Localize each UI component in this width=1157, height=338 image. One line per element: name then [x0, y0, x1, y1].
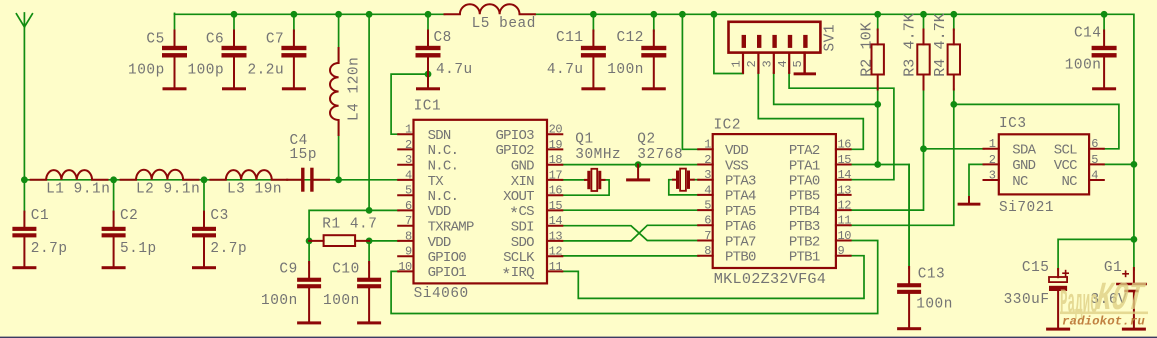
svg-text:C9: C9	[279, 261, 297, 277]
junction rail/C12	[650, 11, 657, 18]
wire SDI net IC1 pin14 crossing to IC2 pin7 PTA7	[562, 226, 699, 241]
svg-text:SDI: SDI	[511, 220, 534, 236]
svg-text:R2 10K: R2 10K	[858, 22, 875, 77]
wire SCLK net IC1 pin12 to IC2 pin8 PTB0	[562, 255, 699, 257]
svg-text:SCLK: SCLK	[503, 250, 535, 266]
resistor R2 10K	[872, 30, 884, 90]
capacitor C6 with ground	[222, 31, 247, 91]
antenna A1 fork	[16, 13, 32, 27]
svg-text:16: 16	[838, 138, 852, 152]
svg-text:GND: GND	[1012, 158, 1035, 174]
wire GPIO1 net IC1 pin10 to IC2 pin10 PTB2	[391, 241, 878, 314]
svg-text:14: 14	[838, 168, 852, 182]
junction RESET/IC2 pin15/C13	[874, 161, 881, 168]
resistor R3 4.7K	[917, 30, 929, 90]
junction rail/R4	[950, 11, 957, 18]
svg-text:12: 12	[838, 199, 852, 213]
junction R2/SV1 pin3	[874, 101, 881, 108]
svg-text:PTA5: PTA5	[725, 204, 756, 220]
svg-text:2: 2	[989, 153, 996, 167]
svg-text:4: 4	[704, 183, 711, 197]
svg-text:SV1: SV1	[823, 24, 839, 52]
svg-text:2: 2	[745, 61, 759, 68]
wire GND net IC1 pin18 to IC2 pin2 VSS	[562, 164, 699, 166]
svg-text:PTA2: PTA2	[789, 143, 820, 159]
wire R4 top lead from rail	[953, 14, 955, 30]
svg-text:8: 8	[704, 244, 711, 258]
wire C14 top drop	[1103, 14, 1105, 31]
ground on GND net	[626, 165, 650, 182]
wire RF line L1-L2-L3-C4 to IC1 pin4 TX	[24, 179, 398, 181]
svg-text:1: 1	[989, 137, 996, 151]
svg-text:2.7p: 2.7p	[210, 241, 247, 257]
op-amp IC3 Si7021 box and pins	[984, 134, 1104, 194]
capacitor C1 with ground	[12, 212, 36, 270]
svg-text:8: 8	[405, 229, 412, 243]
wire C5 top lead drop	[174, 13, 176, 31]
bottom window border	[0, 337, 1157, 338]
junction rail/C7	[291, 11, 298, 18]
svg-text:3: 3	[405, 153, 412, 167]
svg-text:330uF: 330uF	[1004, 292, 1050, 308]
wire C3 top lead	[203, 180, 205, 212]
svg-text:Si7021: Si7021	[999, 200, 1054, 216]
svg-text:3: 3	[760, 61, 774, 68]
svg-text:NC: NC	[1012, 174, 1028, 190]
svg-text:N.C.: N.C.	[428, 143, 459, 159]
capacitor C8 with ground	[416, 31, 441, 91]
capacitor C11 with ground	[581, 31, 606, 91]
wire SDA branch to IC3 pin1	[924, 148, 985, 150]
svg-text:C2: C2	[120, 208, 138, 224]
wire Q2 left loop to IC2 pin4 PTA4	[669, 180, 699, 195]
svg-text:5: 5	[1091, 153, 1098, 167]
svg-text:9: 9	[838, 244, 845, 258]
svg-text:100n: 100n	[1065, 57, 1102, 73]
svg-text:2.7p: 2.7p	[31, 241, 68, 257]
junction R1 in/C9	[306, 238, 313, 245]
svg-text:1: 1	[704, 138, 711, 152]
wire RESET net R2 bottom to SV1 pin3	[774, 73, 878, 105]
svg-text:100p: 100p	[187, 63, 224, 79]
battery G1 with ground	[1117, 268, 1146, 331]
svg-text:5: 5	[704, 199, 711, 213]
wire VDD top rail left of L5	[175, 13, 445, 15]
svg-text:PTB2: PTB2	[789, 234, 820, 250]
svg-text:R1 4.7: R1 4.7	[322, 217, 377, 233]
svg-text:9: 9	[405, 245, 412, 259]
wire CS net IC1 pin15 to IC2 pin5 PTA5	[562, 209, 699, 211]
svg-text:10: 10	[398, 260, 412, 274]
wire VDD top rail right of L5 with right-side drop to battery node	[535, 14, 1134, 270]
junction RF C4/L4	[335, 176, 342, 183]
svg-text:SDN: SDN	[428, 128, 451, 144]
capacitor C13 with ground	[897, 267, 921, 330]
wire VCC to IC3 pin5	[1103, 163, 1134, 165]
svg-text:R3 4.7K: R3 4.7K	[901, 13, 918, 77]
svg-text:7: 7	[704, 229, 711, 243]
svg-text:radiokot.ru: radiokot.ru	[1062, 315, 1145, 329]
wire IRQ net IC1 pin11 to IC2 pin9 PTB1	[562, 256, 864, 299]
svg-text:R4 4.7K: R4 4.7K	[932, 13, 949, 77]
svg-text:5.1p: 5.1p	[120, 241, 157, 257]
wire C7 top lead drop	[293, 14, 295, 31]
wire VDD over to R1 input	[309, 210, 369, 241]
svg-text:4: 4	[1091, 168, 1098, 182]
wire L4 top drop from rail	[338, 14, 340, 63]
crystal Q1 30MHz	[585, 169, 605, 191]
junction RF antenna/C1	[21, 176, 28, 183]
wire Q2 right lead to IC2 pin3 PTA3	[694, 179, 699, 181]
inductor L4	[330, 48, 339, 135]
svg-text:G1: G1	[1104, 260, 1122, 276]
capacitor C7 with ground	[281, 31, 306, 91]
svg-text:C14: C14	[1074, 25, 1102, 41]
svg-text:3: 3	[989, 168, 996, 182]
watermark RadioKot logo	[1060, 276, 1149, 322]
svg-text:C1: C1	[31, 208, 49, 224]
junction rail/C14	[1101, 11, 1108, 18]
wire C8 node to IC1 pin1 SDN	[391, 74, 428, 134]
svg-text:16: 16	[549, 184, 563, 198]
wire L4 bottom to RF node	[338, 120, 340, 180]
wire SWD net SV1 pin2 to IC2 pin16 PTA2	[758, 73, 863, 150]
ground on IC3 GND	[958, 197, 981, 206]
junction RF L2/L3/C3	[201, 176, 208, 183]
svg-text:TXRAMP: TXRAMP	[428, 220, 474, 236]
wire SWC net SV1 pin4 to IC2 pin14 PTA0	[789, 73, 894, 180]
svg-text:MKL02Z32VFG4: MKL02Z32VFG4	[714, 270, 826, 288]
capacitor C10 with ground	[357, 262, 381, 324]
wire VDD drop to SV1 pin1	[714, 14, 743, 73]
svg-text:L5 bead: L5 bead	[472, 16, 536, 32]
junction RF L1/L2/C2	[110, 176, 117, 183]
svg-text:1: 1	[405, 123, 412, 137]
junction rail/IC2 VDD	[679, 11, 686, 18]
capacitor C14 with ground	[1092, 31, 1117, 91]
svg-text:GPIO2: GPIO2	[495, 143, 534, 159]
wire SDO net IC1 pin13 crossing to IC2 pin6 PTA6	[562, 225, 699, 241]
junction SDA/IC3 pin1	[920, 145, 927, 152]
inductor L1	[31, 170, 108, 180]
svg-text:VDD: VDD	[428, 204, 451, 220]
svg-text:C3: C3	[210, 208, 228, 224]
svg-text:L3 19n: L3 19n	[227, 182, 282, 198]
svg-text:6: 6	[704, 214, 711, 228]
capacitor C5 with ground	[162, 31, 187, 91]
wire SCL net R4 bottom down to IC2 pin11 PTB3	[850, 89, 954, 225]
svg-text:100n: 100n	[261, 293, 298, 309]
wire C11 top drop	[592, 14, 594, 31]
op-amp IC1 Si4060 box and pins	[398, 120, 562, 284]
svg-text:PTB4: PTB4	[789, 204, 820, 220]
crystal Q2 32768	[673, 169, 694, 191]
wire VDD drop to IC1 pin6 area	[368, 14, 370, 210]
svg-text:3: 3	[704, 168, 711, 182]
junction rail/R3	[920, 11, 927, 18]
svg-text:PTA7: PTA7	[725, 234, 756, 250]
svg-text:PTA6: PTA6	[725, 219, 756, 235]
junction rail/L4	[335, 11, 342, 18]
wire Q1 return loop to IC1 pin16 XOUT	[562, 180, 609, 195]
svg-text:GPIO0: GPIO0	[428, 250, 467, 266]
svg-text:PTB3: PTB3	[789, 219, 820, 235]
svg-text:7: 7	[405, 214, 412, 228]
capacitor C9 with ground	[297, 262, 321, 324]
svg-text:PTA0: PTA0	[789, 174, 820, 190]
svg-text:C12: C12	[616, 30, 644, 46]
svg-text:2.2u: 2.2u	[247, 63, 284, 79]
svg-text:N.C.: N.C.	[428, 189, 459, 205]
junction GND net/ground symbol	[635, 161, 642, 168]
wire C6 top lead drop	[233, 14, 235, 31]
svg-text:100n: 100n	[916, 297, 953, 313]
junction VCC/C15/G1	[1131, 236, 1138, 243]
resistor R4 4.7K	[948, 30, 960, 90]
svg-text:11: 11	[838, 214, 852, 228]
svg-text:2: 2	[704, 153, 711, 167]
inductor L3	[210, 170, 287, 180]
wire RESET net down to IC2 pin15 node	[877, 104, 879, 164]
junction VCC/IC3 pin5	[1131, 161, 1138, 168]
svg-text:PTA1: PTA1	[789, 158, 820, 174]
svg-text:VSS: VSS	[725, 158, 748, 174]
junction rail/C6	[231, 11, 238, 18]
svg-text:Si4060: Si4060	[414, 286, 469, 302]
junction VDD/IC1 pin6	[366, 207, 373, 214]
svg-text:6: 6	[1091, 137, 1098, 151]
junction C8/SDN wire	[425, 71, 432, 78]
svg-text:VDD: VDD	[725, 143, 748, 159]
junction rail/C8	[425, 11, 432, 18]
junction rail/C11	[590, 11, 597, 18]
svg-text:L1 9.1n: L1 9.1n	[46, 182, 110, 198]
wire C8 top drop	[427, 14, 429, 31]
svg-text:4: 4	[776, 61, 790, 68]
svg-text:100p: 100p	[128, 63, 165, 79]
svg-text:C8: C8	[434, 30, 452, 46]
svg-text:GPIO1: GPIO1	[428, 265, 467, 281]
svg-text:100n: 100n	[607, 62, 644, 78]
svg-text:TX: TX	[428, 174, 445, 190]
junction rail/SV1 pin1	[711, 11, 718, 18]
svg-text:VCC: VCC	[1054, 158, 1077, 174]
wire R1 output to IC1 pin8 VDD	[369, 240, 399, 242]
svg-text:GPIO3: GPIO3	[495, 128, 534, 144]
svg-text:XOUT: XOUT	[503, 189, 534, 205]
svg-text:IC2: IC2	[714, 118, 742, 134]
svg-text:L2 9.1n: L2 9.1n	[136, 182, 200, 198]
svg-text:VDD: VDD	[428, 235, 451, 251]
inductor L2	[121, 170, 199, 180]
wire RESET net over to C13	[878, 165, 909, 269]
wire R2 top lead from rail	[877, 14, 879, 30]
svg-text:14: 14	[549, 214, 563, 228]
svg-text:15: 15	[838, 153, 852, 167]
svg-text:C15: C15	[1022, 260, 1050, 276]
wire VDD to IC1 pin6 VDD	[369, 209, 399, 211]
svg-text:4.7u: 4.7u	[547, 62, 584, 78]
op-amp IC2 MKL02Z32VFG4 box and pins	[698, 134, 850, 268]
svg-text:1: 1	[730, 61, 744, 68]
wire Q1 XIN lead from IC1 pin17	[562, 179, 585, 181]
svg-text:13: 13	[838, 183, 852, 197]
svg-text:IC1: IC1	[414, 99, 442, 115]
svg-text:C11: C11	[556, 30, 584, 46]
capacitor C15 polarized with ground	[1046, 269, 1070, 331]
svg-text:11: 11	[549, 260, 563, 274]
junction R1 out/C10	[366, 238, 373, 245]
wire R3 top lead from rail	[923, 14, 925, 30]
svg-text:17: 17	[549, 168, 563, 182]
svg-text:PTB0: PTB0	[725, 250, 756, 266]
svg-text:20: 20	[549, 123, 563, 137]
junction rail/R2	[874, 11, 881, 18]
svg-text:SDA: SDA	[1012, 143, 1036, 159]
junction rail/VDD drop	[366, 11, 373, 18]
capacitor C3 with ground	[192, 212, 216, 270]
svg-text:PTB5: PTB5	[789, 189, 820, 205]
wire C9 top lead	[308, 241, 310, 263]
svg-text:N.C.: N.C.	[428, 159, 459, 175]
svg-text:C13: C13	[918, 266, 946, 282]
wire C2 top lead	[113, 180, 115, 212]
svg-text:12: 12	[549, 245, 563, 259]
capacitor C12 with ground	[641, 31, 666, 91]
wire VDD drop to IC2 pin1 VDD	[682, 14, 698, 149]
svg-text:Q1: Q1	[575, 132, 593, 148]
svg-text:GND: GND	[511, 159, 534, 175]
wire C1 top lead	[23, 180, 25, 212]
svg-text:PTB1: PTB1	[789, 250, 820, 266]
svg-text:13: 13	[549, 229, 563, 243]
junction SCL/R4	[950, 101, 957, 108]
svg-text:C7: C7	[266, 31, 284, 47]
svg-text:30MHz: 30MHz	[575, 147, 621, 163]
svg-text:4.7u: 4.7u	[436, 62, 473, 78]
svg-text:4: 4	[405, 168, 412, 182]
svg-text:Q2: Q2	[637, 132, 655, 148]
wire IC3 pin2 GND to ground	[969, 164, 984, 198]
svg-text:PTA3: PTA3	[725, 174, 756, 190]
svg-text:18: 18	[549, 153, 563, 167]
capacitor C4 series	[287, 168, 329, 192]
wire SDA net R3 bottom to IC3 pin1 and IC2 pin12 PTB4	[850, 89, 924, 210]
svg-text:5: 5	[791, 61, 805, 68]
wire RESET net to IC2 pin15 PTA1	[850, 164, 878, 166]
wire SCL branch to IC3 pin6 SCL	[954, 104, 1119, 148]
svg-text:15p: 15p	[290, 147, 318, 163]
svg-text:100n: 100n	[323, 293, 360, 309]
svg-text:SDO: SDO	[511, 235, 534, 251]
wire VCC branch to C15	[1058, 239, 1134, 270]
svg-text:NC: NC	[1061, 174, 1077, 190]
svg-text:15: 15	[549, 199, 563, 213]
ground on SV1 pin5	[794, 53, 816, 76]
svg-text:XIN: XIN	[511, 174, 534, 190]
wire C13 connection stub	[908, 165, 910, 269]
svg-text:6: 6	[405, 199, 412, 213]
capacitor C2 with ground	[102, 212, 126, 270]
connector SV1 box posts and pins	[729, 22, 821, 73]
wire C12 top drop	[653, 14, 655, 31]
svg-text:L4 120n: L4 120n	[347, 57, 363, 121]
inductor L5 bead	[445, 4, 535, 14]
svg-text:C5: C5	[146, 31, 164, 47]
svg-text:PTA4: PTA4	[725, 189, 756, 205]
svg-text:C6: C6	[206, 31, 224, 47]
svg-text:19: 19	[549, 138, 563, 152]
svg-text:SCL: SCL	[1054, 143, 1077, 159]
svg-text:2: 2	[405, 138, 412, 152]
svg-text:IC3: IC3	[999, 116, 1027, 132]
wire C10 top lead	[368, 241, 370, 263]
svg-text:5: 5	[405, 184, 412, 198]
svg-text:C10: C10	[332, 261, 360, 277]
svg-text:10: 10	[838, 229, 852, 243]
svg-text:32768: 32768	[637, 147, 683, 163]
resistor R1	[309, 235, 369, 246]
antenna wire down to RF line	[23, 27, 25, 180]
